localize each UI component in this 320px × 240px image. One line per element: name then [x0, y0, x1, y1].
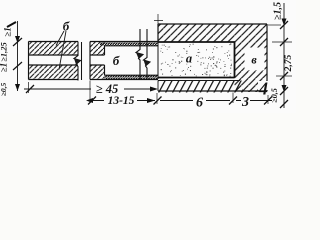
wall face below beam: [157, 81, 159, 92]
wall corner reference tick: [154, 14, 163, 24]
arrow down at 25: [282, 19, 287, 26]
svg-text:3: 3: [241, 95, 249, 110]
concrete stipple in beam "a": [160, 44, 232, 77]
slab left-section outline: [29, 42, 79, 80]
tick x157: [154, 97, 162, 105]
svg-text:6: 6: [196, 96, 203, 111]
ext y25: [268, 24, 281, 26]
ext y42: [272, 41, 292, 43]
gap line under beam: [158, 80, 240, 82]
left dim tick at 66: [13, 62, 22, 70]
wall hatch: right band: [235, 42, 268, 93]
slab near-wall thin top strip hatch: [100, 42, 158, 46]
niche right face (bold): [234, 42, 236, 78]
svg-text:≥1,25: ≥1,25: [0, 41, 9, 61]
label 4 halo: [258, 81, 268, 90]
wall hatch: top band: [158, 24, 267, 42]
left dim bottom arrow: [15, 84, 20, 91]
extension lines bottom: [90, 81, 268, 105]
left dim top bold dash: [7, 22, 16, 27]
beam left edge: [157, 42, 159, 80]
label v halo: [245, 48, 265, 71]
slab near-wall outline: [90, 42, 158, 80]
slab near-wall section: top flange block: [90, 42, 105, 56]
slab near-wall thin bottom strip hatch: [105, 75, 159, 79]
dim line >=45: [24, 88, 152, 90]
tick x233: [229, 97, 237, 105]
arrow right to wall face: [147, 98, 155, 103]
right dimension line: [283, 3, 285, 108]
svg-text:4: 4: [258, 79, 268, 99]
slab left-section hatch top bar: [29, 42, 79, 56]
break line pair 2: [136, 29, 143, 80]
svg-text:13-15: 13-15: [108, 95, 135, 107]
wall hatch: strip under beam: [158, 81, 243, 93]
left dimension line: [17, 21, 19, 91]
svg-text:≥1: ≥1: [0, 63, 9, 72]
tick y76: [276, 75, 292, 77]
beam bottom edge (bold): [158, 77, 235, 79]
svg-text:а: а: [186, 52, 192, 66]
svg-text:≥0,5: ≥0,5: [270, 88, 279, 102]
left dim arrow at 42: [15, 36, 20, 43]
svg-text:2,75: 2,75: [284, 54, 294, 72]
leader lines b: [56, 31, 66, 70]
svg-text:в: в: [251, 53, 257, 67]
svg-text:≥0,5: ≥0,5: [0, 83, 8, 97]
svg-text:≥ 45: ≥ 45: [96, 82, 119, 96]
svg-text:≥1: ≥1: [3, 27, 13, 36]
slab left-section hatch bottom bar: [29, 65, 79, 80]
svg-text:б: б: [113, 53, 120, 68]
slab near-wall section: bottom flange block: [90, 65, 105, 80]
niche top edge (bold): [158, 41, 235, 43]
wall outline: [158, 24, 267, 91]
svg-text:≥1,5: ≥1,5: [273, 2, 284, 20]
tick x268: [264, 97, 272, 105]
arrow down at 91: [282, 85, 287, 92]
tick x92: [88, 97, 96, 105]
dim line 13-15 / 6 / 3: [88, 100, 272, 102]
break line pair 1: [74, 42, 81, 81]
